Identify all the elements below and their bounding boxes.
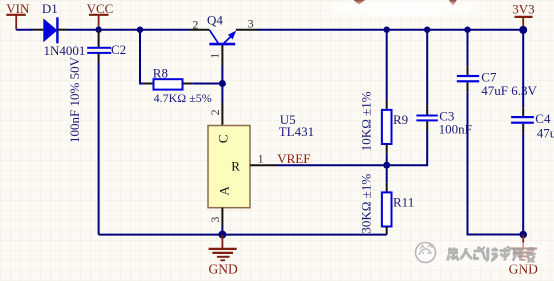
svg-text:A: A bbox=[217, 186, 232, 196]
svg-text:C2: C2 bbox=[111, 42, 126, 57]
svg-text:1N4001: 1N4001 bbox=[44, 43, 86, 58]
junction node Q4 base bbox=[219, 80, 226, 87]
junction node C3 top bbox=[424, 27, 430, 33]
capacitor C2 bbox=[67, 42, 126, 143]
svg-text:10KΩ ±1%: 10KΩ ±1% bbox=[359, 91, 374, 151]
wire D1 to Q4 pin 2 bbox=[68, 29, 190, 31]
junction node 3V3 bbox=[519, 26, 527, 34]
pin C4 top bbox=[522, 107, 524, 117]
wire C3 top bbox=[426, 30, 428, 105]
top edge artifact red fragment left bbox=[354, 0, 366, 5]
junction node GND right bbox=[519, 231, 527, 239]
svg-text:2: 2 bbox=[192, 18, 198, 32]
pin Q4 1 bbox=[221, 45, 223, 66]
ic U5 TL431 bbox=[208, 109, 314, 222]
wire R9 top bbox=[386, 30, 388, 101]
wire C7 bottom to GND right bbox=[468, 92, 524, 234]
svg-text:R: R bbox=[231, 158, 240, 173]
wire U5 pin1 to VREF node bbox=[277, 164, 387, 166]
svg-text:47uF 6.3V: 47uF 6.3V bbox=[481, 83, 537, 98]
svg-text:47u: 47u bbox=[537, 125, 554, 140]
svg-text:Q4: Q4 bbox=[207, 13, 223, 28]
pin D1 cathode bbox=[57, 29, 67, 31]
pin R11 top bbox=[386, 183, 388, 193]
pin Q4 3 bbox=[236, 29, 258, 31]
power port 3V3 bbox=[512, 2, 534, 30]
wire Q4 base to U5 pin2 bbox=[221, 66, 223, 104]
pin R11 bottom bbox=[386, 227, 388, 235]
svg-text:GND: GND bbox=[208, 261, 237, 276]
svg-text:R8: R8 bbox=[153, 66, 168, 81]
junction node C7 top bbox=[464, 27, 470, 33]
svg-text:R9: R9 bbox=[393, 112, 408, 127]
transistor Q4 bbox=[192, 13, 253, 59]
capacitor C7 bbox=[457, 70, 538, 99]
wire VREF node to C3 bottom bbox=[387, 131, 428, 165]
ground GND center bbox=[208, 235, 237, 277]
svg-text:3: 3 bbox=[208, 217, 222, 223]
pin Q4 2 bbox=[190, 29, 210, 31]
junction node R8 branch bbox=[137, 27, 143, 33]
pin R8 right bbox=[183, 83, 193, 85]
pin R8 left bbox=[144, 83, 154, 85]
svg-text:1: 1 bbox=[258, 151, 264, 165]
pin C4 bottom bbox=[522, 124, 524, 133]
pin C2 bottom bbox=[98, 53, 100, 62]
pin C3 bottom bbox=[426, 121, 428, 131]
resistor R11 bbox=[359, 174, 415, 234]
power port VCC bbox=[87, 1, 114, 30]
pin U5 3 bbox=[221, 208, 223, 226]
resistor R9 bbox=[359, 91, 409, 151]
wire 3V3 to C4 bbox=[522, 30, 524, 107]
svg-text:1: 1 bbox=[207, 53, 221, 59]
pin R9 bottom bbox=[386, 144, 388, 154]
wire C2 to bottom rail bbox=[98, 62, 100, 235]
watermark text bbox=[448, 247, 536, 262]
power port VIN bbox=[6, 1, 30, 30]
ground GND right bbox=[509, 235, 538, 277]
svg-text:3: 3 bbox=[248, 17, 254, 31]
pin U5 2 bbox=[221, 103, 223, 126]
pin D1 anode bbox=[33, 29, 43, 31]
wire U5 pin3 to GND bbox=[221, 226, 223, 235]
resistor R8 bbox=[153, 66, 212, 105]
capacitor C4 bbox=[511, 111, 554, 140]
svg-text:R11: R11 bbox=[393, 195, 414, 210]
capacitor C3 bbox=[416, 109, 471, 137]
junction node GND center bbox=[218, 231, 226, 239]
pin C3 top bbox=[426, 105, 428, 115]
diode D1 bbox=[42, 1, 86, 58]
top edge white smudge bbox=[325, 1, 485, 15]
junction node VCC bbox=[95, 27, 101, 33]
wire C4 bottom to GND right bbox=[522, 133, 524, 234]
wire VREF node to R11 top bbox=[386, 165, 388, 183]
svg-text:D1: D1 bbox=[42, 1, 58, 16]
svg-text:VREF: VREF bbox=[277, 151, 310, 166]
pin R9 top bbox=[386, 100, 388, 110]
watermark logo bbox=[416, 243, 436, 263]
svg-text:3V3: 3V3 bbox=[512, 2, 534, 17]
watermark capsule bbox=[410, 242, 544, 267]
svg-text:C: C bbox=[216, 134, 231, 143]
wire R8 branch down bbox=[140, 30, 144, 84]
wire C7 top bbox=[467, 30, 469, 66]
svg-text:100nF 10% 50V: 100nF 10% 50V bbox=[67, 56, 82, 143]
svg-text:TL431: TL431 bbox=[279, 124, 314, 139]
top edge artifact red fragment right bbox=[449, 0, 457, 6]
svg-text:2: 2 bbox=[208, 109, 222, 115]
wire R9 bottom to VREF node bbox=[386, 154, 388, 166]
svg-text:C4: C4 bbox=[535, 111, 551, 126]
junction node VREF bbox=[383, 162, 390, 169]
svg-text:4.7KΩ ±5%: 4.7KΩ ±5% bbox=[154, 91, 212, 105]
wire bottom rail left bbox=[99, 234, 387, 236]
pin C7 bottom bbox=[467, 82, 469, 92]
junction node R9 top bbox=[384, 27, 390, 33]
svg-text:30KΩ ±1%: 30KΩ ±1% bbox=[359, 174, 374, 234]
wire VIN to D1 anode bbox=[16, 29, 33, 31]
wire Q4 emitter to 3V3 rail bbox=[258, 29, 523, 31]
pin U5 1 bbox=[250, 164, 277, 166]
pin C7 top bbox=[467, 66, 469, 76]
pin C2 top bbox=[98, 30, 100, 48]
wire R8 to Q4 base node bbox=[192, 83, 222, 85]
